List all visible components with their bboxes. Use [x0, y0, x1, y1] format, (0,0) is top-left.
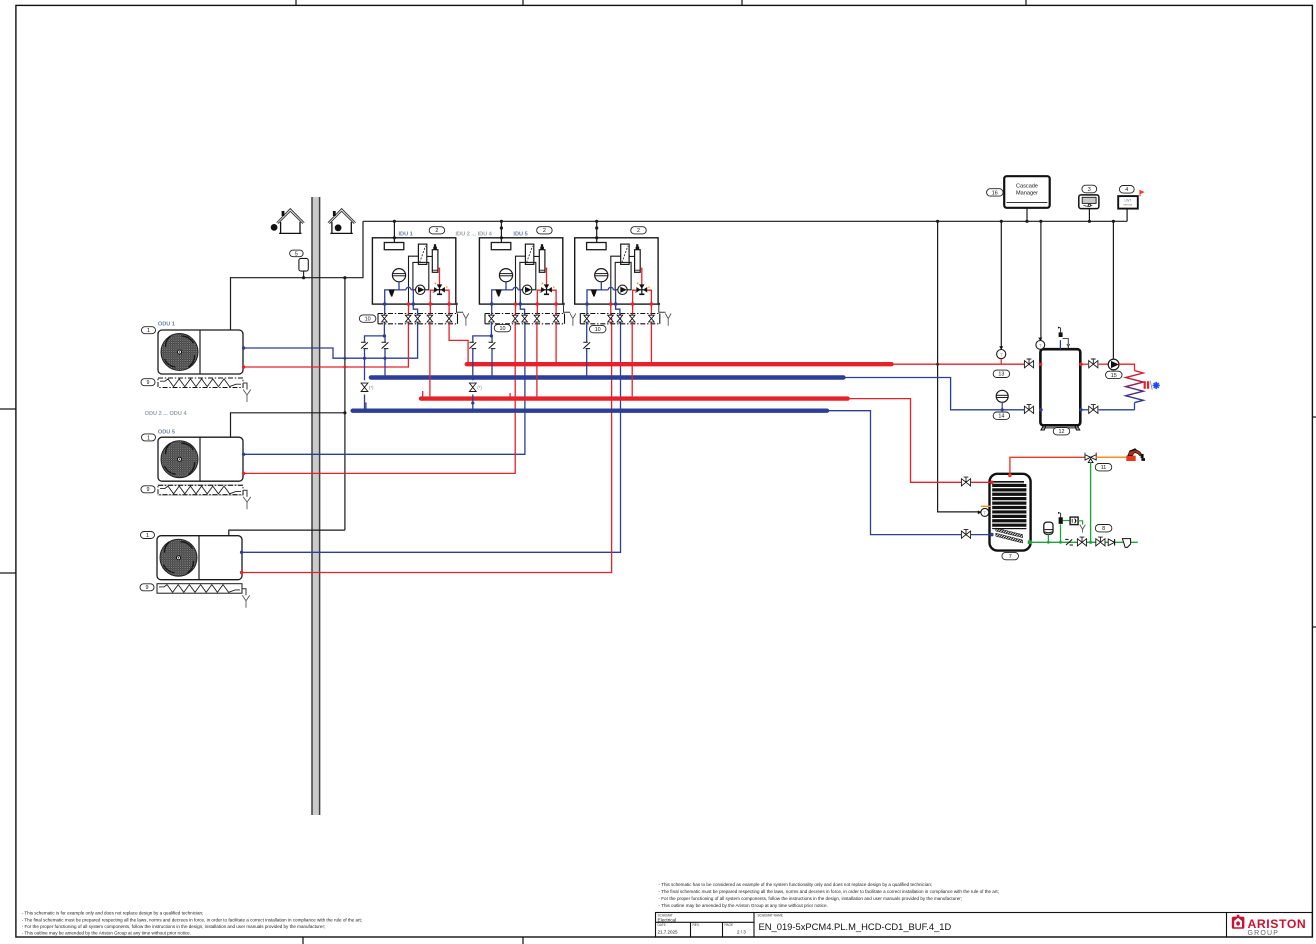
- outdoor sensor 5: [299, 258, 308, 279]
- svg-text:5: 5: [295, 251, 298, 257]
- svg-text:11: 11: [1101, 465, 1107, 471]
- hydraulic module outline: [413, 262, 429, 289]
- ODU3 comm wire: [229, 530, 345, 536]
- svg-text:DATE: DATE: [658, 923, 666, 927]
- capsule label 2 (IDU3): [631, 227, 647, 235]
- blue pipe to buffer tank: [844, 378, 1025, 410]
- svg-text:T: T: [1039, 343, 1042, 348]
- svg-text:- For the proper functioning o: - For the proper functioning of all syst…: [659, 896, 963, 901]
- cold water feed (green) down from valve 11: [1090, 463, 1092, 543]
- buffer tank 12: [1040, 349, 1080, 430]
- svg-text:10: 10: [595, 327, 601, 333]
- thermostatic mixing valve 11: [1084, 453, 1097, 463]
- green cold water main: [1030, 541, 1138, 543]
- air vent on tank top: [1058, 327, 1070, 350]
- svg-text:ODU 5: ODU 5: [158, 430, 175, 436]
- thick red supply pipe (heating): [467, 362, 892, 366]
- svg-text:IDU 5: IDU 5: [513, 231, 527, 237]
- bottom-right notes text: [659, 882, 999, 908]
- dirt filter: [495, 290, 501, 295]
- IDU cabinet box: [575, 238, 658, 304]
- wire to sensor T13: [1000, 221, 1002, 349]
- red flow piping: [537, 290, 556, 304]
- capsule label 9 (ODU3 coil): [140, 584, 154, 591]
- check valve (IDU3): [583, 342, 590, 348]
- cascade manager 16: [1004, 176, 1049, 208]
- svg-text:Electrical: Electrical: [658, 918, 677, 923]
- capsule label 8: [1095, 525, 1112, 533]
- ODU1 blue return pipe: [243, 314, 418, 359]
- plate heat exchanger: [418, 244, 426, 264]
- IDU 5 (indoor unit): [479, 238, 575, 326]
- blue pipe to DHW exchanger: [827, 411, 961, 535]
- green shut-off valve left: [1077, 539, 1086, 546]
- svg-text:ARISTON: ARISTON: [1248, 917, 1307, 931]
- DHW temperature sensor: [978, 506, 991, 516]
- capsule label 3: [1082, 185, 1097, 193]
- thermostat 3 wire: [1088, 209, 1090, 222]
- svg-text:ODU 2 ... ODU 4: ODU 2 ... ODU 4: [145, 411, 188, 417]
- dirt filter: [591, 290, 597, 295]
- manifold shut-off valves: [586, 314, 588, 324]
- internal piping: [611, 256, 635, 304]
- thick blue return pipe (DHW): [353, 409, 827, 413]
- capsule label 13: [993, 370, 1010, 378]
- drain funnel: [463, 313, 469, 325]
- capsule label 1 (ODU2): [142, 434, 156, 441]
- svg-text:PAGE: PAGE: [725, 923, 734, 927]
- diverter valve: [542, 285, 552, 294]
- ODU3 blue return pipe: [241, 314, 621, 553]
- plate heat exchanger: [621, 244, 629, 264]
- expansion vessel: [595, 269, 608, 282]
- plate heat exchanger: [525, 244, 533, 264]
- svg-text:EN_019-5xPCM4.PL.M_HCD-CD1_BUF: EN_019-5xPCM4.PL.M_HCD-CD1_BUF.4_1D: [759, 921, 952, 932]
- title block table: [656, 913, 1313, 938]
- building wall: [312, 197, 320, 815]
- svg-text:10: 10: [365, 317, 371, 323]
- IDU2 comm wire: [500, 221, 502, 242]
- check valve (IDU2 left): [469, 342, 476, 348]
- capsule label 10 (IDU3 manifold): [589, 325, 606, 333]
- ODU 1 (outdoor unit): [158, 330, 251, 402]
- wire from bus down-left to outdoor sensor line: [231, 221, 364, 330]
- check valve on green line: [1065, 539, 1073, 545]
- red pipe to DHW exchanger: [848, 399, 962, 483]
- IDU 1 (indoor unit): [372, 238, 468, 326]
- svg-text:Cascade: Cascade: [1016, 183, 1038, 189]
- radiator glyph: [1144, 381, 1146, 389]
- device 4 wire: [1126, 209, 1128, 222]
- svg-text:2: 2: [637, 228, 640, 234]
- hydraulic module outline: [615, 262, 631, 289]
- svg-text:1: 1: [147, 435, 150, 441]
- capsule label 2 (IDU1): [429, 227, 445, 235]
- svg-text:Manager: Manager: [1016, 190, 1038, 196]
- ODU3 red flow pipe: [241, 314, 612, 573]
- svg-text:10: 10: [500, 326, 506, 332]
- dirt filter: [388, 290, 394, 295]
- svg-text:IDU 1: IDU 1: [399, 231, 413, 237]
- Ariston Group logo: [1232, 915, 1245, 929]
- capsule label 5: [290, 250, 304, 257]
- thick blue return pipe (heating): [371, 375, 844, 379]
- svg-text:- The final schematic must be: - The final schematic must be prepared r…: [22, 917, 362, 922]
- electric heater vessel: [432, 250, 438, 273]
- svg-text:IDU 2 ... IDU 4: IDU 2 ... IDU 4: [456, 231, 493, 237]
- capsule label 10 (IDU1 manifold): [359, 315, 376, 323]
- capsule label 12: [1053, 428, 1070, 436]
- red flow piping: [633, 290, 652, 304]
- red stub above DHW red pipe: [422, 391, 424, 399]
- ODU1 red flow pipe: [243, 314, 408, 368]
- svg-text:2: 2: [543, 228, 546, 234]
- svg-text:- This schematic has to be con: - This schematic has to be considered as…: [659, 882, 933, 887]
- svg-text:15: 15: [1111, 373, 1117, 379]
- ODU2 blue return pipe: [243, 314, 525, 455]
- mixed water pipe to tap: [1096, 456, 1126, 458]
- wire to tank top sensor: [1040, 221, 1042, 340]
- svg-text:16: 16: [992, 190, 998, 196]
- capsule label 15: [1106, 371, 1123, 379]
- circulation pump: [416, 285, 425, 294]
- capsule label 7: [1002, 552, 1019, 560]
- svg-text:(*): (*): [369, 385, 374, 390]
- small expansion vessel (potable): [1044, 522, 1053, 544]
- capsule label 9 (ODU1 coil): [141, 379, 155, 386]
- wire to pump 15: [1112, 221, 1114, 359]
- diverter valve: [435, 285, 445, 294]
- check valve (IDU2 right): [489, 342, 496, 348]
- wire bus down to ODU2/ODU3: [344, 278, 346, 530]
- cone check valve: [1108, 539, 1114, 546]
- svg-text:7: 7: [1009, 554, 1012, 560]
- svg-text:14: 14: [998, 414, 1004, 420]
- svg-text:1: 1: [146, 533, 149, 539]
- drain funnel: [570, 313, 576, 325]
- svg-text:ODU 1: ODU 1: [158, 321, 175, 327]
- safety valve group: [1058, 512, 1085, 544]
- svg-text:9: 9: [146, 585, 149, 591]
- shut-off valve (*) IDU2: [469, 383, 476, 391]
- svg-text:REV.: REV.: [693, 923, 700, 927]
- electrical bus wire (top): [363, 220, 1127, 222]
- tap / faucet: [1126, 448, 1145, 461]
- LWT device 4: [1118, 196, 1138, 209]
- manifold shut-off valves: [490, 314, 492, 324]
- capsule label 4: [1119, 186, 1134, 194]
- svg-text:- This outline may be amended: - This outline may be amended by the Ari…: [22, 931, 191, 936]
- control board: [491, 243, 511, 250]
- valve manifold 10: [378, 313, 458, 315]
- svg-text:- The final schematic must be: - The final schematic must be prepared r…: [659, 889, 999, 894]
- red flow piping: [430, 290, 449, 304]
- tank red out + valve: [1079, 362, 1083, 366]
- shut-off valve (tank red in): [1024, 361, 1033, 368]
- IDU3 lower piping (blue check valve riser): [586, 324, 588, 378]
- svg-text:13: 13: [998, 372, 1004, 378]
- capsule label 1 (ODU3): [141, 532, 155, 539]
- DHW tank 7 (tank-in-tank): [990, 474, 1031, 551]
- IDU unit 3 (indoor unit): [575, 238, 671, 326]
- house outside (left of wall): [271, 209, 305, 234]
- capsule label 11: [1095, 464, 1112, 472]
- capsule label 2 (IDU2): [537, 227, 553, 235]
- IDU3 red risers: [631, 324, 633, 397]
- pump 15: [1108, 359, 1119, 370]
- IDU1 lower piping (blue with check valves): [365, 324, 385, 411]
- capsule label 9 (ODU2 coil): [141, 486, 155, 493]
- shut-off valve (*) IDU1: [361, 383, 368, 391]
- thick red supply pipe (DHW): [421, 396, 848, 400]
- ODU 2 (outdoor unit, ODU 5): [158, 437, 251, 509]
- expansion vessel: [499, 269, 512, 282]
- circulation pump: [618, 285, 627, 294]
- blue stub above DHW blue pipe: [365, 402, 367, 410]
- capsule label 10 (IDU2 manifold): [494, 324, 511, 332]
- check valve (IDU1 left): [361, 342, 368, 348]
- diverter valve: [637, 285, 647, 294]
- svg-text:- For the proper functioning o: - For the proper functioning of all syst…: [22, 924, 326, 929]
- svg-text:GROUP: GROUP: [1248, 930, 1280, 937]
- house inside (right of wall): [328, 209, 356, 234]
- capsule label 16: [987, 189, 1004, 197]
- tank blue out + valve: [1079, 408, 1083, 412]
- drain funnel: [665, 313, 671, 325]
- control board: [384, 243, 404, 250]
- svg-text:8: 8: [1102, 526, 1105, 532]
- svg-text:3: 3: [1088, 187, 1091, 193]
- svg-text:2 / 3: 2 / 3: [737, 930, 746, 935]
- svg-text:9: 9: [147, 487, 150, 493]
- svg-text:T: T: [1000, 352, 1003, 358]
- svg-text:T: T: [984, 510, 987, 515]
- svg-text:1: 1: [147, 328, 150, 334]
- electric heater vessel: [635, 250, 641, 273]
- internal piping: [409, 256, 433, 304]
- tank top temperature sensor: [1036, 338, 1045, 350]
- blue return piping: [587, 290, 616, 304]
- blue return piping: [385, 290, 414, 304]
- expansion vessel 14: [996, 390, 1008, 411]
- shut-off valve (tank blue out): [1024, 406, 1033, 413]
- ODU2 red flow pipe: [243, 314, 515, 474]
- red flag marker: [1140, 191, 1143, 197]
- IDU1 comm wire: [393, 221, 395, 242]
- svg-text:4: 4: [1125, 187, 1128, 193]
- heating/cooling load zigzag: [1126, 371, 1144, 403]
- room thermostat 3: [1079, 195, 1099, 209]
- svg-text:- This outline may be amended: - This outline may be amended by the Ari…: [659, 903, 828, 908]
- DHW red inlet valve: [971, 481, 992, 483]
- svg-text:SCHEMAT NAME: SCHEMAT NAME: [758, 913, 783, 917]
- circulation pump: [523, 285, 532, 294]
- bottom-left notes text: [22, 911, 362, 936]
- valve manifold 10: [580, 313, 660, 315]
- manifold shut-off valves: [383, 314, 385, 324]
- ODU2 comm wire: [231, 413, 345, 437]
- snowflake (cooling) glyph: [1153, 382, 1160, 389]
- IDU cabinet box: [372, 238, 455, 304]
- hydraulic module outline: [520, 262, 536, 289]
- IDU3 comm wire: [596, 221, 598, 242]
- svg-text:sensor: sensor: [1123, 203, 1132, 207]
- svg-text:(*): (*): [477, 385, 482, 390]
- IDU1 red risers: [429, 324, 431, 397]
- cascade manager wire: [1026, 208, 1028, 222]
- IDU2 red risers: [536, 324, 538, 397]
- red pipe to buffer tank: [892, 363, 1025, 365]
- svg-text:2: 2: [435, 228, 438, 234]
- mains inlet symbol: [1122, 539, 1130, 548]
- electric heater vessel: [539, 250, 545, 273]
- green shut-off valve right: [1096, 539, 1105, 546]
- svg-text:21.7.2025: 21.7.2025: [658, 930, 679, 935]
- temperature sensor T13: [997, 346, 1006, 364]
- DHW blue inlet valve: [971, 534, 992, 536]
- valve manifold 10: [485, 313, 565, 315]
- capsule label 14: [993, 412, 1010, 420]
- IDU cabinet box: [479, 238, 562, 304]
- capsule label 1 (ODU1): [142, 327, 156, 334]
- ODU 3 (outdoor unit): [157, 536, 250, 608]
- svg-text:9: 9: [147, 380, 150, 386]
- expansion vessel: [392, 269, 405, 282]
- DHW hot outlet pipe: [1010, 457, 1085, 474]
- check valve (IDU1 right): [382, 342, 389, 348]
- IDU2 lower piping (blue with check valves): [473, 324, 492, 411]
- svg-text:- This schematic is for exampl: - This schematic is for example only and…: [22, 911, 204, 916]
- control board: [587, 243, 607, 250]
- svg-text:12: 12: [1059, 429, 1065, 435]
- blue return piping: [492, 290, 521, 304]
- wire down to DHW temperature sensor: [938, 221, 981, 512]
- red pipe to heating load: [1119, 364, 1135, 370]
- internal piping: [516, 256, 540, 304]
